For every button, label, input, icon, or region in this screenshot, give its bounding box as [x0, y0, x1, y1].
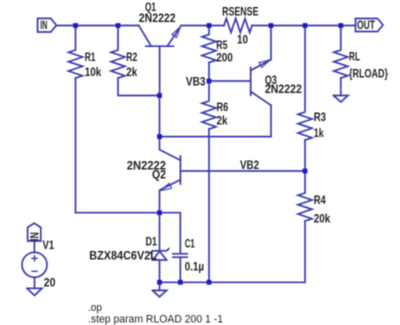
svg-text:C1: C1 [185, 238, 195, 250]
junction dot node B (R2/Q1 base) [157, 93, 162, 98]
port IN (rotated, at V1 plus) [28, 223, 41, 252]
svg-text:RL: RL [349, 52, 360, 64]
wire top rail left: IN port to Q1 collector [56, 25, 139, 27]
svg-text:R1: R1 [85, 52, 96, 64]
wire ground rail [160, 281, 306, 283]
svg-text:Q2: Q2 [152, 169, 166, 181]
transistor Q2 [160, 137, 181, 213]
junction dot R2 top [116, 23, 121, 28]
wire VB3 net: node to Q3 base [209, 80, 251, 82]
wire R6 bottom column to ground rail [208, 129, 210, 282]
svg-text:IN: IN [40, 20, 47, 32]
ground flag under V1 [27, 288, 42, 295]
svg-text:20: 20 [44, 278, 56, 290]
junction dot node C (Q2 collector) [157, 134, 162, 139]
wire Q3 emitter to top rail [270, 26, 272, 60]
wire R1 bottom to node D [76, 212, 160, 214]
diode D1 (zener) [150, 213, 168, 283]
svg-text:OUT: OUT [357, 20, 375, 32]
svg-text:20k: 20k [314, 214, 331, 226]
wire R2 bottom to Q1 base column [118, 78, 160, 96]
ground flag under RL [334, 96, 349, 103]
svg-text:{RLOAD}: {RLOAD} [349, 69, 388, 81]
junction dot VB3 node [207, 79, 212, 84]
resistor R2 [111, 26, 125, 79]
junction dot ground rail left [157, 280, 162, 285]
wire R4 bottom to ground rail [304, 221, 306, 282]
wire RL to ground [340, 78, 342, 96]
ground flag main [153, 282, 167, 297]
svg-text:IN: IN [29, 232, 41, 241]
junction dot C1 bottom [178, 280, 183, 285]
resistor R3 [298, 26, 312, 141]
port OUT [356, 19, 384, 32]
resistor R4 [298, 171, 312, 221]
svg-text:R3: R3 [314, 112, 326, 124]
junction dot R3 top [303, 23, 308, 28]
svg-text:.op: .op [88, 302, 102, 314]
svg-text:.step param RLOAD 200 1 -1: .step param RLOAD 200 1 -1 [88, 314, 223, 325]
transistor Q3 [251, 60, 271, 106]
svg-text:R2: R2 [126, 52, 137, 64]
svg-text:RSENSE: RSENSE [222, 7, 259, 19]
junction dot RL top [338, 23, 343, 28]
junction dot R1 top [73, 23, 78, 28]
port IN [38, 18, 57, 32]
svg-text:10k: 10k [85, 67, 102, 79]
resistor R6 [202, 81, 216, 129]
wire R1 bottom column [75, 78, 77, 213]
wire node C to Q3 collector loop [160, 105, 272, 136]
wire R5 to VB3 node [208, 63, 210, 82]
resistor R5 [202, 26, 216, 63]
junction dot R6 bottom [207, 280, 212, 285]
voltage source V1 [22, 252, 47, 277]
junction dot Q3 emitter / RSENSE right [269, 23, 274, 28]
svg-text:R5: R5 [216, 40, 228, 52]
resistor RSENSE [224, 19, 252, 33]
junction dot VB2 node [303, 169, 308, 174]
svg-text:2N2222: 2N2222 [139, 13, 176, 25]
svg-text:2k: 2k [126, 67, 138, 79]
wire V1 minus to ground [34, 277, 36, 288]
wire R3 to VB2 node [304, 140, 306, 171]
svg-text:2k: 2k [217, 115, 229, 127]
svg-text:1k: 1k [314, 128, 324, 140]
svg-text:200: 200 [216, 52, 233, 64]
svg-text:10: 10 [237, 35, 248, 47]
junction dot RSENSE left [207, 23, 212, 28]
svg-text:R4: R4 [314, 195, 326, 207]
resistor R1 [69, 26, 83, 79]
svg-text:VB2: VB2 [240, 160, 259, 172]
wire VB2 net: Q2 base to R3/R4 junction [180, 170, 305, 172]
svg-text:2N2222: 2N2222 [265, 84, 302, 96]
capacitor C1 [160, 213, 188, 283]
wire Q1 base down [159, 46, 161, 95]
svg-text:V1: V1 [43, 240, 55, 252]
svg-text:0.1µ: 0.1µ [185, 261, 204, 273]
wire top rail right: RSENSE to OUT port [252, 25, 355, 27]
resistor RL [334, 26, 348, 79]
svg-text:D1: D1 [146, 236, 158, 248]
svg-text:R6: R6 [217, 102, 229, 114]
transistor Q1 [139, 26, 181, 47]
svg-text:BZX84C6V2L: BZX84C6V2L [89, 250, 157, 262]
wire top rail mid: Q1 emitter to RSENSE [181, 25, 224, 27]
svg-text:VB3: VB3 [186, 76, 206, 88]
wire column node B to node C [159, 96, 161, 137]
junction dot node D (Q2 emitter/D1) [157, 210, 162, 215]
